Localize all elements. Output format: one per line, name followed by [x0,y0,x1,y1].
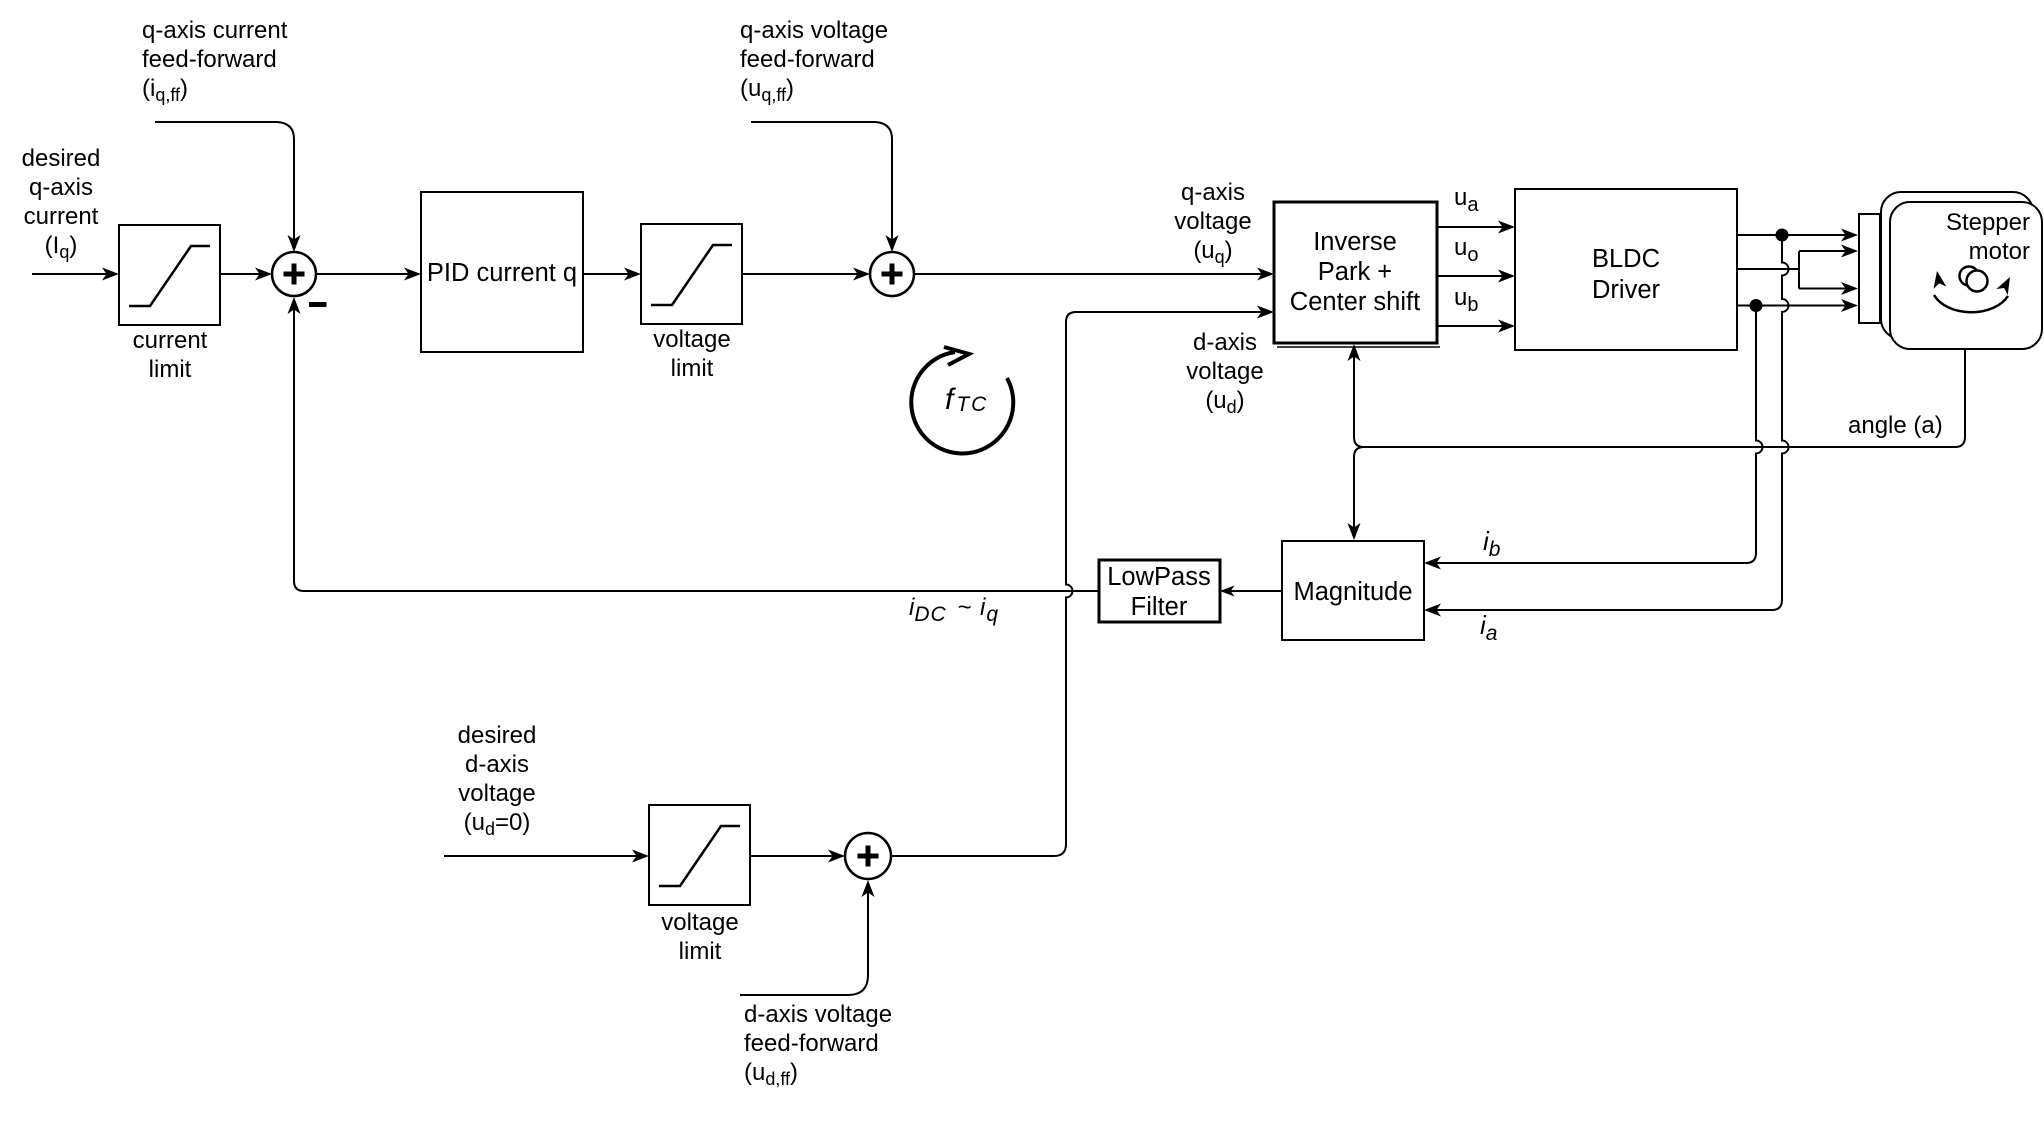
wire: ub [1437,320,1515,333]
label: ua [1454,184,1479,216]
wire: desired q-axis current input [32,268,119,281]
svg-text:voltage: voltage [1174,208,1251,235]
wire: S1 to PID current q [316,268,421,281]
svg-text:BLDC: BLDC [1592,245,1660,273]
svg-text:q-axis voltage: q-axis voltage [740,17,888,44]
block: voltage limit q (saturation) [641,224,742,324]
svg-text:Park +: Park + [1318,258,1392,286]
svg-text:current: current [133,327,208,354]
wire: current sense ia (from dot A to Magnitude) [1424,241,1789,617]
wire: PID to voltage limit [583,268,641,281]
block: Inverse Park + Center shift [1274,202,1440,347]
svg-text:limit: limit [679,938,722,965]
svg-text:feed-forward: feed-forward [740,46,875,73]
svg-text:Magnitude: Magnitude [1293,578,1412,606]
svg-text:limit: limit [149,356,192,383]
svg-text:Driver: Driver [1592,276,1661,304]
wire: BLDC center tap to motor (split) [1737,245,1858,296]
wire: current sense ib (from dot B to Magnitude) [1424,312,1763,570]
svg-text:voltage: voltage [653,326,730,353]
node label: q-axis voltage (uq) [1174,179,1251,267]
label: ia [1480,610,1497,645]
junction dot B [1750,299,1763,312]
svg-text:current: current [24,203,99,230]
node label: desired q-axis current (Iq) [22,145,101,262]
svg-text:motor: motor [1969,238,2030,265]
svg-text:Stepper: Stepper [1946,209,2030,236]
svg-text:q-axis current: q-axis current [142,17,288,44]
svg-text:desired: desired [458,722,537,749]
svg-text:d-axis: d-axis [465,751,529,778]
svg-text:q-axis: q-axis [1181,179,1245,206]
node label: q-axis voltage feed-forward (uq,ff) [740,17,888,105]
label: ib [1483,526,1501,561]
svg-text:q-axis: q-axis [29,174,93,201]
minus sign at S1 [309,302,327,307]
block: BLDC Driver [1515,189,1737,350]
wire: BLDC phase A to motor [1737,229,1858,242]
wire: S2 to Inverse Park (q-axis voltage uq) [914,268,1274,281]
node label: d-axis voltage (ud) [1186,329,1263,417]
svg-text:d-axis: d-axis [1193,329,1257,356]
svg-text:feed-forward: feed-forward [142,46,277,73]
svg-text:(ud): (ud) [1205,387,1244,417]
node label: desired d-axis voltage (ud=0) [458,722,537,839]
svg-text:Center shift: Center shift [1290,288,1420,316]
wire: uq,ff into sum S2 [751,122,899,252]
wire: uo [1437,270,1515,283]
node label: d-axis voltage feed-forward (ud,ff) [744,1001,892,1089]
svg-text:PID current q: PID current q [427,259,577,287]
symbol: fTC loop rate [911,347,1013,453]
junction dot A [1776,229,1789,242]
svg-text:d-axis voltage: d-axis voltage [744,1001,892,1028]
label: Stepper motor [1946,209,2030,265]
label: voltage limit d [661,909,738,965]
label: ub [1454,284,1478,316]
node label: q-axis current feed-forward (iq,ff) [142,17,288,105]
svg-text:LowPass: LowPass [1107,563,1210,591]
wire: voltage limit d to sum S3 [750,850,845,863]
svg-text:(ud=0): (ud=0) [464,809,531,839]
svg-text:limit: limit [671,355,714,382]
summing junction S3 [845,833,891,879]
svg-text:Filter: Filter [1131,593,1188,621]
svg-text:desired: desired [22,145,101,172]
svg-text:voltage: voltage [1186,358,1263,385]
motor connector [1859,214,1880,323]
label: uo [1454,234,1478,266]
wire: S3 to Inverse Park (d-axis voltage ud) [891,306,1274,857]
label: voltage limit q [653,326,730,382]
block: current limit (saturation) [119,225,220,325]
svg-text:voltage: voltage [661,909,738,936]
block: PID current q [421,192,583,352]
block: voltage limit d (saturation) [649,805,750,905]
wire: d-axis input [444,850,649,863]
wire: ud,ff into sum S3 [740,880,875,995]
wire: Magnitude to LowPass Filter [1220,585,1282,596]
label: angle (a) [1848,412,1943,439]
label: iDC ~ iq [909,594,998,626]
block: Magnitude [1282,541,1424,640]
summing junction S2 [870,252,914,296]
motor rotation icon [1931,267,2016,313]
svg-text:voltage: voltage [458,780,535,807]
svg-text:feed-forward: feed-forward [744,1030,879,1057]
svg-text:Inverse: Inverse [1313,228,1397,256]
svg-text:angle (a): angle (a) [1848,412,1943,439]
label: current limit [133,327,208,383]
wire: angle feedback from motor [1348,344,1966,540]
summing junction S1 [272,252,316,296]
wire: voltage limit to sum S2 [742,268,870,281]
wire: iq,ff feed-forward into sum S1 [155,122,301,252]
block: LowPass Filter [1099,560,1220,622]
wire: BLDC phase B to motor [1737,299,1858,312]
block: stepper motor body [1881,192,2042,349]
wire: current limit to sum S1 [220,268,272,281]
wire: ua [1437,221,1515,234]
wire: iDC feedback to S1 minus input [288,297,1100,591]
svg-text:(uq): (uq) [1193,237,1232,267]
